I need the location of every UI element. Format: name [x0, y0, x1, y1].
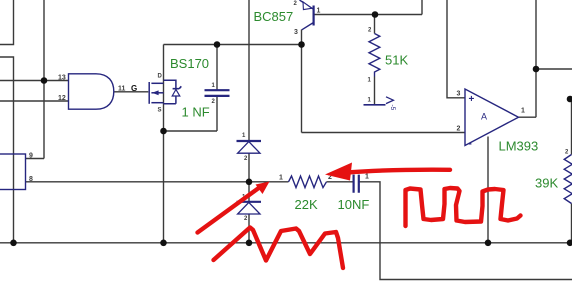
- wire pin9: [26, 158, 45, 160]
- wire lm393 output: [518, 0, 536, 117]
- svg-text:BS170: BS170: [170, 56, 209, 71]
- wire mosfet vertical: [163, 45, 165, 243]
- mosfet Q BS170: [149, 80, 181, 104]
- red arrow long shaft: [347, 170, 450, 173]
- red sawtooth wave: [214, 228, 344, 269]
- wire cap1nf top lead: [216, 45, 218, 90]
- svg-text:1: 1: [365, 174, 369, 181]
- svg-text:11: 11: [118, 86, 126, 93]
- svg-text:9: 9: [29, 153, 33, 160]
- junction (163.5,242.8): [160, 240, 167, 247]
- svg-text:12: 12: [58, 95, 66, 102]
- svg-text:A: A: [481, 112, 487, 122]
- red arrow long head: [325, 163, 352, 181]
- svg-text:LM393: LM393: [499, 139, 539, 154]
- and-gate U-11: [69, 74, 114, 109]
- svg-text:-: -: [469, 139, 472, 150]
- junction (570,242.8): [567, 240, 572, 247]
- wire cap1nf bottom lead: [164, 97, 218, 132]
- svg-text:BC857: BC857: [254, 9, 294, 24]
- svg-text:1: 1: [279, 175, 283, 182]
- red arrow short head: [256, 182, 270, 195]
- svg-text:1: 1: [317, 8, 321, 15]
- resistor 39K zigzag: [564, 155, 572, 204]
- op-amp U LM393: [465, 89, 519, 150]
- svg-text:22K: 22K: [295, 197, 318, 212]
- wire pin8 to resistor: [26, 181, 289, 183]
- junction (375,14.5): [372, 11, 379, 18]
- svg-text:-5: -5: [389, 105, 396, 111]
- svg-text:13: 13: [58, 75, 66, 82]
- svg-text:1: 1: [521, 108, 525, 115]
- wire gate output: [114, 91, 149, 93]
- svg-text:S: S: [158, 108, 162, 114]
- junction (163.5,131): [160, 128, 167, 135]
- svg-text:G: G: [131, 84, 137, 93]
- transistor Q BC857: [300, 0, 314, 30]
- junction (488,242.8): [485, 240, 492, 247]
- power flag -5: [364, 97, 397, 111]
- wire lm393 out right: [536, 68, 572, 70]
- junction (570,99): [567, 96, 572, 103]
- svg-text:51K: 51K: [385, 53, 408, 68]
- wire left L down: [0, 57, 14, 243]
- wire gate input 12: [0, 100, 69, 102]
- svg-text:8: 8: [29, 176, 33, 183]
- wire top rail: [164, 44, 302, 46]
- svg-text:D: D: [158, 74, 163, 80]
- junction (44,80.5): [41, 77, 48, 84]
- resistor 51K zigzag: [369, 34, 380, 77]
- mosfet substrate arrow: [152, 90, 159, 95]
- junction (301.5,44.5): [298, 41, 305, 48]
- red square wave: [406, 188, 521, 226]
- junction (536,69): [533, 66, 540, 73]
- capacitor C 1NF plates: [205, 90, 230, 96]
- red arrow short shaft: [198, 189, 259, 233]
- capacitor 10NF plates: [354, 175, 359, 193]
- wire lm393 power pin: [487, 137, 489, 243]
- wire 51k leads: [374, 15, 376, 105]
- svg-text:3: 3: [457, 91, 461, 98]
- wire gate input 13: [0, 80, 69, 82]
- junction (217,44.5): [214, 41, 221, 48]
- wire diode chain: [248, 0, 250, 243]
- svg-text:2: 2: [457, 126, 461, 133]
- wire bottom rail: [0, 242, 570, 244]
- wire bc857 base: [314, 0, 423, 15]
- mosfet body diode: [172, 90, 180, 97]
- svg-text:+: +: [469, 94, 475, 105]
- wire vertical x44: [43, 0, 45, 159]
- junction (249,242.8): [246, 240, 253, 247]
- ic box pins 9/8: [0, 154, 26, 190]
- wire 39k leads: [570, 99, 572, 243]
- svg-text:3: 3: [294, 29, 298, 36]
- wire top-left L: [0, 0, 14, 45]
- junction (249,181.8): [246, 179, 253, 186]
- wire lm393 pin2: [302, 132, 466, 134]
- junction (13.5,242.8): [10, 240, 17, 247]
- diode D1: [237, 141, 262, 153]
- diode D2: [237, 202, 262, 214]
- wire bc857 collector down: [301, 30, 303, 133]
- resistor 22K zigzag: [289, 176, 327, 188]
- svg-text:1 NF: 1 NF: [182, 105, 210, 120]
- svg-text:39K: 39K: [535, 176, 558, 191]
- svg-text:10NF: 10NF: [338, 197, 370, 212]
- wire lm393 pin3: [447, 0, 465, 98]
- wire cap10nf out: [359, 182, 572, 280]
- wire resistor to cap10nf: [327, 181, 354, 183]
